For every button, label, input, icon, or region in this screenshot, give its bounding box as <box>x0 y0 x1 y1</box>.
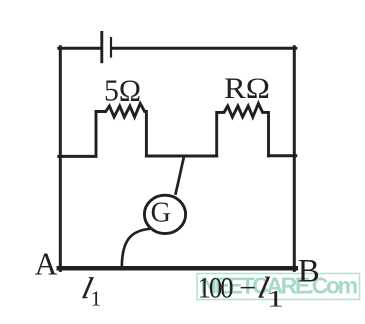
wire bridge AB bottom <box>59 266 296 271</box>
resistor 5 ohm <box>96 104 146 158</box>
svg-text:RΩ: RΩ <box>224 73 270 105</box>
wire galvanometer tap to middle wire <box>175 157 184 195</box>
wire right edge <box>293 47 296 271</box>
svg-text:1: 1 <box>267 287 284 312</box>
wire top-left segment <box>59 47 100 50</box>
battery cell <box>102 31 111 63</box>
wire top-right segment <box>112 47 296 50</box>
wire left edge <box>59 47 62 271</box>
wire middle right segment <box>269 154 296 157</box>
svg-text:1: 1 <box>91 287 102 311</box>
resistor R ohm <box>217 104 269 158</box>
svg-text:G: G <box>151 198 171 229</box>
wire galvanometer jockey to bridge <box>122 229 150 267</box>
svg-text:B: B <box>298 254 320 290</box>
wire middle left segment <box>59 155 96 158</box>
wire middle center segment <box>146 155 216 158</box>
galvanometer G <box>144 195 185 233</box>
watermark NEETCARE.Com <box>197 273 360 300</box>
svg-text:100−: 100− <box>198 272 257 305</box>
svg-text:5Ω: 5Ω <box>104 73 141 108</box>
svg-text:A: A <box>35 247 58 282</box>
